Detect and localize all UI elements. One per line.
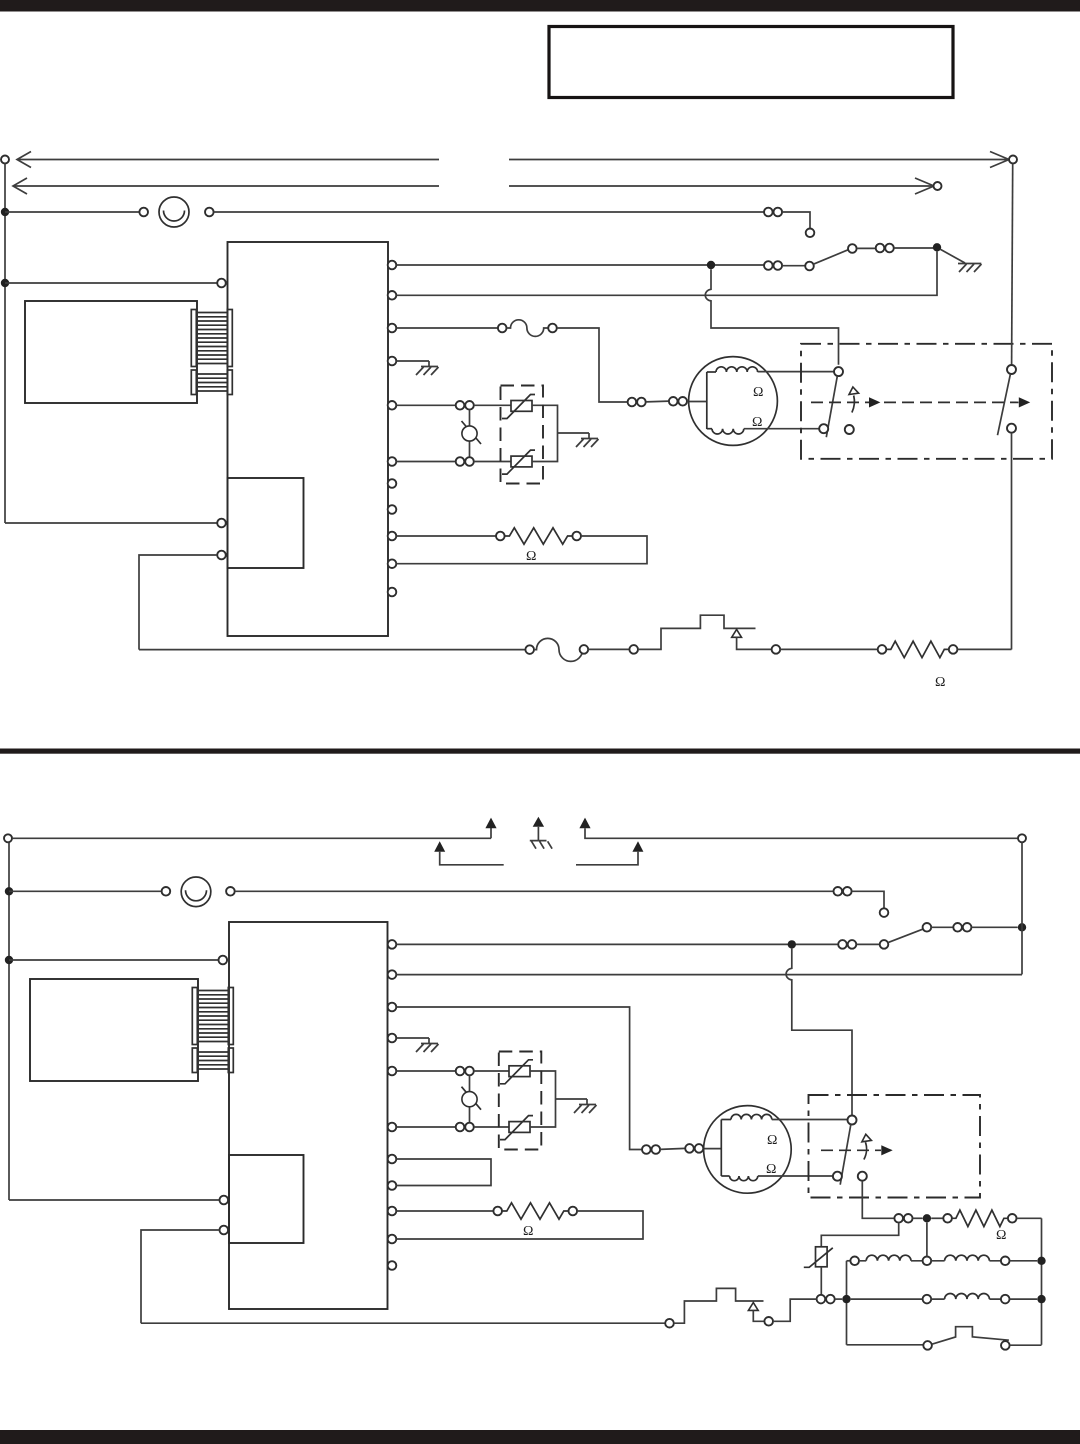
separator bar	[0, 749, 1080, 754]
wire pin3 to motor feed (lower)	[396, 1007, 642, 1150]
wire bus to control board	[5, 282, 217, 284]
board pin terminal (lower) y=1038	[388, 1034, 397, 1043]
board pin terminal y=592	[388, 588, 397, 597]
varistor ZNR1	[511, 401, 532, 412]
ground at varistor	[588, 433, 590, 439]
dash-dot actuation line (lower)	[821, 1149, 881, 1151]
wire bus to display board (lower)	[9, 1199, 220, 1201]
wire pin2 to right bus (lower)	[396, 974, 1022, 976]
junction	[1, 208, 9, 216]
board pin terminal (lower) y=974.6	[388, 970, 397, 979]
varistor circuit pin5 (lower)	[396, 1070, 455, 1072]
arrowhead L2 right	[915, 178, 934, 194]
varistor dashed enclosure	[501, 386, 544, 484]
lamp wire	[5, 211, 139, 213]
arrowhead L1 left	[17, 152, 31, 168]
svg-text:Ω: Ω	[752, 415, 762, 430]
wire heater switch to heater block	[862, 1181, 894, 1219]
thermal fuse (bottom)	[534, 638, 583, 661]
svg-text:Ω: Ω	[523, 1224, 533, 1239]
connector arrow onto line (right)	[632, 841, 643, 852]
door motor switch contacts	[834, 367, 843, 376]
wire pin3 thermal fuse to motor feed	[396, 327, 498, 329]
ground at pin4 (lower)	[396, 1037, 429, 1039]
motor connector blade	[646, 400, 669, 403]
thermistor branch	[821, 1223, 898, 1247]
connector arrow up-left	[490, 828, 492, 838]
wire pin1 to relay row (lower)	[396, 943, 838, 945]
svg-text:Ω: Ω	[526, 549, 536, 564]
bottom page bar	[0, 1430, 1080, 1444]
heater coil row 1	[847, 1260, 851, 1262]
wire bus to control board (lower)	[9, 959, 219, 961]
board pin terminal (lower) y=1265.5	[388, 1261, 397, 1270]
connector arrow up-right	[579, 818, 590, 829]
main supply line (lower diagram)	[4, 834, 12, 842]
transformer winding upper	[197, 313, 228, 364]
dash-dot actuation line with arrows	[811, 401, 869, 403]
thermal cutout (lower)	[674, 1288, 764, 1323]
door switch right contacts	[1012, 164, 1013, 365]
resistor (defrost)	[886, 641, 949, 657]
display board (lower)	[229, 1155, 304, 1243]
varistor circuit pin6 (lower)	[396, 1126, 455, 1128]
control board (lower)	[229, 922, 388, 1309]
resistor R (pin9)	[396, 535, 496, 537]
junction	[1, 279, 9, 287]
resistor return wire to pin10 (lower)	[396, 1211, 643, 1239]
surge arrester	[469, 410, 471, 458]
board pin terminal y=265	[388, 261, 397, 270]
varistor output joining wire	[532, 405, 589, 461]
arrowhead L2 left	[13, 178, 27, 194]
board pin terminal y=536	[388, 532, 397, 541]
wire lamp to contact	[214, 211, 764, 213]
transformer winding lower (lower)	[198, 1052, 229, 1069]
ground at varistor (lower)	[586, 1099, 588, 1105]
thermostat row	[847, 1344, 924, 1346]
board pin terminal y=563.7	[388, 559, 397, 568]
actuation arrow (lower)	[864, 1142, 867, 1159]
transformer winding lower	[197, 374, 228, 391]
arrowhead L1 right	[990, 152, 1009, 168]
thermal cutout (thermostat)	[638, 615, 756, 649]
wire L2 to external (second arrow line)	[13, 185, 933, 187]
varistor joining wire (lower)	[530, 1071, 587, 1127]
junction	[5, 887, 13, 895]
lamp wire (lower)	[9, 890, 162, 892]
pin7-pin8 jumper loop	[396, 1159, 491, 1186]
vertical resistor-to-coil link	[926, 1223, 928, 1257]
switch blade (monitor switch)	[813, 250, 848, 265]
left bus wire	[4, 164, 6, 524]
right heater bus	[1041, 1218, 1043, 1345]
wire branch pin1 down to motor switch	[705, 269, 838, 365]
board pin terminal (lower) y=1007	[388, 1003, 397, 1012]
svg-text:Ω: Ω	[753, 385, 763, 400]
wire door switch down to bottom line	[1011, 433, 1013, 650]
title box	[549, 27, 953, 98]
resistor R (pin9, lower)	[396, 1210, 493, 1212]
control board (main PCB)	[228, 242, 389, 636]
varistor circuit: pin6 wire	[396, 461, 455, 463]
board pin terminal (lower) y=944.4	[388, 940, 397, 949]
board pin terminal (lower) y=1185.5	[388, 1181, 397, 1190]
door motor M2	[704, 1106, 792, 1194]
svg-text:Ω: Ω	[996, 1228, 1006, 1243]
interlock dash-dot enclosure	[801, 344, 1052, 459]
left heater bus	[846, 1261, 848, 1345]
connector arrow onto line (left)	[434, 841, 445, 852]
left bus wire (lower)	[8, 842, 10, 1200]
wire display board to bottom line (lower)	[220, 1226, 229, 1235]
heater coil row 2	[851, 1298, 923, 1300]
relay blade (lower)	[888, 929, 923, 943]
board pin terminal (lower) y=1071	[388, 1067, 397, 1076]
pilot lamp (lower)	[181, 877, 211, 907]
varistor ZNR2 (lower)	[509, 1122, 530, 1133]
incoming wire to row2 junction	[817, 1295, 826, 1304]
thermistor	[816, 1247, 828, 1267]
board pin terminal y=328	[388, 324, 397, 333]
bottom line of upper diagram	[139, 649, 525, 651]
varistor ZNR1 (lower)	[509, 1066, 530, 1077]
pilot lamp	[159, 197, 189, 227]
surge arrester (lower)	[469, 1075, 471, 1123]
svg-text:Ω: Ω	[766, 1162, 776, 1177]
junction	[5, 956, 13, 964]
ground at pin4	[396, 360, 429, 362]
board pin terminal y=461.5	[388, 457, 397, 466]
heater resistor	[952, 1210, 1008, 1226]
ground at monitor switch	[941, 249, 966, 263]
board pin terminal y=361	[388, 357, 397, 366]
motor connector blade (lower)	[660, 1148, 685, 1149]
wire pin2 to right	[396, 252, 937, 296]
varistor dashed enclosure (lower)	[499, 1052, 542, 1150]
right bus wire (lower)	[1021, 842, 1023, 974]
board pin terminal (lower) y=1127	[388, 1123, 397, 1132]
wire pin1 to door switch row	[396, 264, 764, 266]
wire display board to bottom line	[217, 551, 226, 560]
board pin terminal y=509.5	[388, 505, 397, 514]
display board	[228, 478, 304, 568]
heater switch dash-dot enclosure	[809, 1095, 981, 1198]
board pin terminal y=483.5	[388, 479, 397, 488]
svg-text:Ω: Ω	[935, 675, 945, 690]
center ground with arrow	[533, 817, 544, 827]
wire bus to display board	[5, 522, 217, 524]
board pin terminal (lower) y=1211	[388, 1207, 397, 1216]
heater/door switch contacts (lower)	[848, 1116, 857, 1125]
resistor return wire to pin10	[396, 536, 647, 564]
wire pin1 branch down to heater switch	[786, 949, 852, 1116]
door motor M1	[689, 357, 778, 446]
board pin terminal (lower) y=1239	[388, 1235, 397, 1244]
board pin terminal y=405.3	[388, 401, 397, 410]
board pin terminal y=295.3	[388, 291, 397, 300]
actuation arrow	[852, 396, 854, 413]
bottom line of lower diagram	[141, 1322, 665, 1324]
board pin terminal (lower) y=1159	[388, 1155, 397, 1164]
svg-text:Ω: Ω	[767, 1133, 777, 1148]
transformer body	[25, 301, 197, 403]
transformer body (lower)	[30, 979, 198, 1081]
wire L1 to external (top arrow line)	[1, 156, 9, 164]
top page bar	[0, 0, 1080, 12]
varistor circuit: pin5 wire	[396, 404, 455, 406]
transformer winding upper (lower)	[198, 991, 229, 1042]
varistor ZNR2	[511, 456, 532, 467]
